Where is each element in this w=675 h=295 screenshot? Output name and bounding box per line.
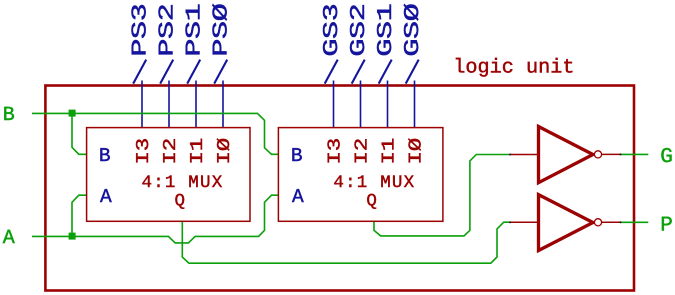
- svg-text:PS3: PS3: [130, 4, 153, 57]
- svg-text:GSØ: GSØ: [402, 4, 425, 57]
- inverter U4 bubble: [594, 219, 601, 226]
- junction dot U4 output: [620, 221, 622, 223]
- svg-text:IØ: IØ: [407, 138, 427, 165]
- inverter U4 triangle: [539, 195, 594, 251]
- wire A branch to MUX1.A: [72, 195, 87, 236]
- MUX U1 box: [87, 128, 250, 222]
- svg-text:A: A: [3, 227, 15, 250]
- inverter U4 input pin: [510, 221, 538, 223]
- wire /GS3 vertical: [333, 81, 335, 128]
- wire /GS0 vertical: [414, 81, 416, 128]
- svg-text:GS3: GS3: [321, 4, 344, 57]
- wire G output: [621, 153, 649, 155]
- svg-text:B: B: [99, 145, 111, 167]
- svg-text:IØ: IØ: [215, 138, 235, 165]
- svg-text:B: B: [3, 104, 15, 127]
- svg-text:4:1 MUX: 4:1 MUX: [333, 173, 415, 193]
- svg-text:PS2: PS2: [157, 4, 180, 57]
- wire /PS3 vertical: [141, 81, 143, 128]
- svg-text:A: A: [100, 186, 112, 208]
- svg-text:PSØ: PSØ: [211, 4, 234, 57]
- inverter U3 bubble: [594, 151, 601, 158]
- svg-text:G: G: [660, 146, 673, 169]
- svg-text:Q: Q: [366, 192, 377, 212]
- inverter U3 output pin: [602, 153, 621, 155]
- junction dot U3 input: [509, 154, 511, 156]
- svg-text:I3: I3: [326, 138, 346, 164]
- svg-text:I2: I2: [353, 138, 373, 164]
- svg-text:I2: I2: [161, 138, 181, 164]
- svg-text:A: A: [292, 186, 304, 208]
- svg-text:logic unit: logic unit: [453, 57, 574, 80]
- wire /PS2 vertical: [168, 81, 170, 128]
- wire P output: [621, 221, 649, 223]
- svg-text:GS2: GS2: [348, 4, 371, 57]
- svg-text:I3: I3: [134, 138, 154, 164]
- wire B branch to MUX1.B: [72, 113, 87, 154]
- inverter U4 output pin: [602, 221, 621, 223]
- svg-text:I1: I1: [188, 138, 208, 164]
- inverter U3 input pin: [510, 154, 538, 156]
- wire B horizontal to MUX2.B: [32, 113, 278, 154]
- outer logic unit box: [45, 86, 634, 291]
- svg-text:I1: I1: [380, 138, 400, 164]
- svg-text:4:1 MUX: 4:1 MUX: [142, 173, 224, 193]
- wire A horizontal with jog to MUX2.A: [32, 195, 278, 243]
- junction dot U3 output: [620, 153, 622, 155]
- svg-text:P: P: [660, 214, 673, 237]
- wire MUX1.Q to inverter U2 input: [182, 221, 509, 263]
- svg-text:PS1: PS1: [184, 4, 207, 57]
- junction A: [69, 233, 76, 240]
- wire /PS0 vertical: [222, 81, 224, 128]
- wire /PS1 vertical: [195, 81, 197, 128]
- junction B: [69, 110, 76, 117]
- svg-text:GS1: GS1: [375, 4, 398, 57]
- MUX U2 box: [278, 128, 443, 222]
- junction dot U4 input: [509, 221, 511, 223]
- wire /GS2 vertical: [360, 81, 362, 128]
- svg-text:Q: Q: [175, 192, 186, 212]
- wire MUX2.Q to inverter U1 input: [374, 155, 510, 236]
- wire /GS1 vertical: [387, 81, 389, 128]
- svg-text:B: B: [291, 145, 303, 167]
- inverter U3 triangle: [539, 127, 594, 183]
